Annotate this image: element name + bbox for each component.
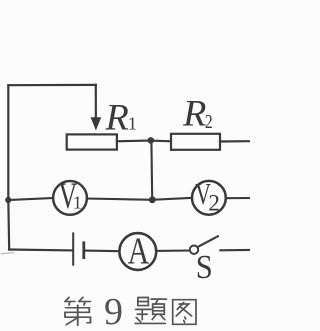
wire top horizontal (8, 84, 96, 86)
rheostat R1 box (67, 134, 117, 149)
switch S contact circle (190, 246, 198, 254)
node J1 junction dot (148, 137, 155, 144)
voltmeter V1 letter (59, 176, 82, 217)
battery long plate (72, 232, 74, 265)
svg-text:1: 1 (73, 193, 82, 213)
rheostat R1 slider arrowhead (91, 117, 102, 130)
svg-text:2: 2 (205, 111, 213, 133)
label R1 (104, 98, 136, 138)
svg-text:S: S (196, 248, 213, 286)
wire battery to ammeter (85, 250, 120, 253)
node left junction dot (5, 197, 11, 203)
wire R2 to right edge (220, 140, 250, 143)
wire V2 to right edge (226, 197, 250, 199)
caption: 9 (104, 291, 123, 331)
wire V1 to J2 (87, 199, 153, 200)
wire R1 to junction J1 (117, 139, 151, 142)
resistor R2 box (171, 134, 220, 150)
wire bottom horizontal (9, 248, 72, 251)
wire left dot to V1 (8, 198, 53, 200)
wire J1 to R2 (151, 140, 171, 143)
svg-text:R: R (104, 98, 128, 138)
ammeter A letter (128, 230, 150, 272)
battery short plate (82, 241, 85, 259)
voltmeter V2 circle (192, 181, 226, 215)
caption: 题 (135, 298, 166, 324)
svg-text:1: 1 (128, 113, 137, 133)
scan shadow artifact below bottom-left corner (1, 253, 14, 254)
voltmeter V1 circle (53, 181, 87, 215)
wire slider drop shaft (95, 85, 97, 120)
ammeter A circle (119, 233, 156, 270)
svg-text:A: A (128, 230, 150, 272)
voltmeter V2 letter (195, 176, 220, 215)
wire junction J1 down to J2 (150, 141, 153, 200)
wire left vertical (7, 85, 10, 249)
node J2 junction dot (149, 196, 156, 203)
label R2 (182, 94, 213, 134)
svg-text:9: 9 (104, 291, 123, 331)
wire switch to right edge (220, 249, 250, 252)
svg-text:2: 2 (208, 190, 220, 215)
wire ammeter to switch (156, 249, 190, 251)
caption: 第 (65, 297, 90, 325)
wire J2 to V2 (152, 198, 192, 200)
switch S label (196, 248, 213, 286)
svg-text:R: R (182, 94, 206, 134)
caption: 图 (173, 300, 196, 325)
switch S lever (199, 236, 218, 246)
